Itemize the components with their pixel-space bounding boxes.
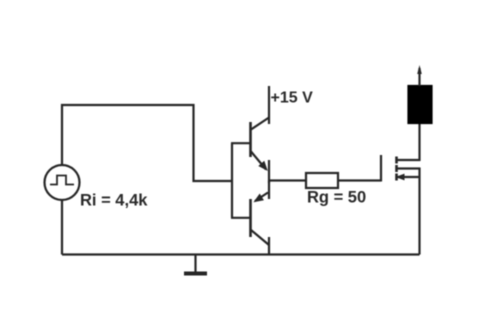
wire source vertical bbox=[418, 168, 420, 255]
transistor Q2 collector bbox=[251, 230, 269, 245]
wire top supply lead bbox=[418, 68, 420, 86]
arrowhead supply bbox=[417, 65, 422, 74]
mosfet source stub bbox=[397, 176, 421, 178]
mosfet channel segment top bbox=[395, 157, 398, 164]
svg-text:Rg = 50: Rg = 50 bbox=[307, 189, 366, 207]
transistor Q2 emitter bbox=[255, 193, 268, 202]
wire Q2 emitter lead bbox=[268, 181, 270, 200]
node common base vertical bbox=[231, 143, 233, 218]
wire Q1 collector lead bbox=[268, 86, 270, 124]
wire top-left loop bbox=[62, 105, 233, 181]
mosfet M1 gate bar bbox=[380, 155, 382, 182]
wire base stub Q1 bbox=[231, 142, 250, 144]
transistor Q1 emitter arrow bbox=[258, 161, 268, 171]
transistor Q1 base bar bbox=[249, 122, 252, 157]
wire Q2 collector lead bbox=[268, 237, 270, 255]
wire Q1 emitter lead bbox=[268, 160, 270, 183]
wire source bottom bbox=[61, 200, 63, 255]
mosfet channel segment middle bbox=[395, 165, 398, 172]
pulse source V1 bbox=[45, 165, 80, 200]
svg-text:Ri = 4,4k: Ri = 4,4k bbox=[80, 192, 148, 210]
ground bar bbox=[184, 272, 207, 276]
mosfet source arrow bbox=[396, 174, 405, 181]
wire drain vertical bbox=[418, 123, 420, 161]
svg-text:+15 V: +15 V bbox=[271, 90, 314, 107]
resistor Rg bbox=[306, 173, 338, 188]
wire bottom rail bbox=[62, 253, 420, 255]
transistor Q1 collector bbox=[251, 118, 269, 130]
ground bbox=[194, 255, 196, 273]
pulse waveform symbol bbox=[50, 176, 74, 185]
transistor Q2 emitter arrow bbox=[253, 194, 264, 203]
mosfet body stub bbox=[397, 167, 421, 169]
mosfet drain stub bbox=[397, 159, 421, 161]
wire Rg to gate bbox=[338, 179, 381, 181]
transistor Q1 emitter bbox=[251, 152, 266, 170]
wire base stub Q2 bbox=[231, 217, 250, 219]
wire output node to Rg bbox=[269, 179, 306, 181]
resistor RL (load) bbox=[409, 86, 432, 123]
transistor Q2 base bar bbox=[249, 199, 252, 237]
mosfet channel segment bottom bbox=[395, 174, 398, 181]
